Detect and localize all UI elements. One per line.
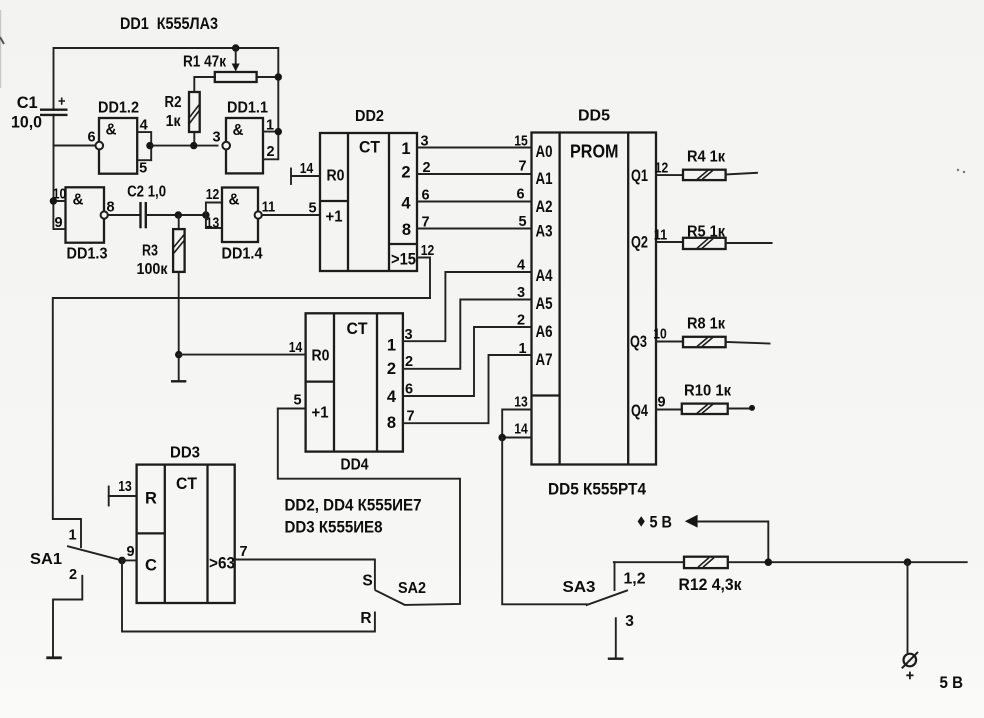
- svg-text:2: 2: [401, 164, 410, 182]
- svg-text:2: 2: [405, 354, 413, 370]
- svg-text:A6: A6: [536, 323, 553, 341]
- svg-text:4: 4: [517, 258, 525, 274]
- svg-text:5 В: 5 В: [940, 674, 964, 692]
- svg-text:Q4: Q4: [631, 402, 649, 420]
- svg-text:DD1 К555ЛА3: DD1 К555ЛА3: [120, 14, 218, 33]
- svg-text:+1: +1: [312, 405, 329, 422]
- svg-text:9: 9: [54, 215, 62, 231]
- svg-text:R0: R0: [327, 168, 345, 185]
- svg-text:DD2: DD2: [355, 108, 384, 125]
- svg-text:DD1.1: DD1.1: [227, 100, 268, 117]
- svg-text:&: &: [229, 192, 240, 209]
- svg-text:5: 5: [308, 201, 316, 217]
- svg-text:7: 7: [518, 159, 526, 175]
- svg-text:CT: CT: [359, 138, 381, 157]
- svg-text:DD3 К555ИЕ8: DD3 К555ИЕ8: [285, 519, 383, 537]
- svg-text:&: &: [73, 192, 84, 209]
- svg-text:SA1: SA1: [30, 551, 62, 568]
- svg-text:3: 3: [420, 134, 428, 150]
- svg-text:R12 4,3к: R12 4,3к: [679, 576, 743, 594]
- svg-text:4: 4: [387, 388, 397, 406]
- svg-text:8: 8: [106, 200, 114, 216]
- svg-text:6: 6: [405, 382, 413, 398]
- svg-text:R0: R0: [312, 348, 330, 365]
- svg-text:SA3: SA3: [563, 579, 596, 596]
- svg-text:7: 7: [239, 544, 247, 560]
- svg-text:1: 1: [518, 341, 526, 357]
- svg-text:R: R: [360, 610, 371, 627]
- svg-text:7: 7: [421, 215, 429, 231]
- svg-text:3: 3: [404, 327, 412, 343]
- svg-text:DD5 К555РТ4: DD5 К555РТ4: [548, 481, 647, 499]
- svg-text:2: 2: [387, 360, 396, 378]
- svg-text:1: 1: [68, 528, 76, 544]
- svg-text:A5: A5: [536, 295, 553, 313]
- svg-text:2: 2: [69, 567, 77, 583]
- svg-text:10: 10: [53, 187, 67, 203]
- svg-text:R: R: [145, 490, 157, 508]
- svg-text:DD2, DD4 К555ИЕ7: DD2, DD4 К555ИЕ7: [285, 497, 422, 515]
- svg-text:SA2: SA2: [398, 580, 426, 597]
- svg-text:100к: 100к: [137, 261, 168, 278]
- svg-text:PROM: PROM: [570, 142, 619, 162]
- svg-text:R5 1к: R5 1к: [687, 224, 725, 241]
- svg-text:1: 1: [401, 140, 410, 158]
- svg-text:R8 1к: R8 1к: [687, 316, 725, 333]
- svg-text:R2: R2: [165, 94, 182, 111]
- svg-text:14: 14: [300, 161, 314, 177]
- svg-text:DD1.2: DD1.2: [98, 100, 139, 117]
- svg-text:10,0: 10,0: [11, 113, 42, 132]
- svg-text:1,2: 1,2: [624, 571, 646, 588]
- svg-text:R10 1к: R10 1к: [684, 383, 731, 400]
- svg-text:12: 12: [206, 187, 220, 203]
- svg-text:DD4: DD4: [341, 457, 369, 474]
- svg-text:9: 9: [126, 544, 134, 560]
- svg-text:4: 4: [140, 118, 148, 134]
- svg-text:4: 4: [401, 195, 411, 213]
- svg-text:Q3: Q3: [630, 333, 647, 351]
- svg-text:R4 1к: R4 1к: [687, 149, 725, 166]
- svg-text:6: 6: [87, 130, 95, 146]
- svg-text:A1: A1: [536, 170, 553, 188]
- svg-text:DD5: DD5: [578, 108, 610, 125]
- svg-text:2: 2: [422, 160, 430, 176]
- svg-text:2: 2: [517, 313, 525, 329]
- svg-text:14: 14: [514, 422, 528, 438]
- svg-text:C1: C1: [17, 93, 38, 112]
- svg-text:A3: A3: [536, 223, 553, 241]
- svg-text:&: &: [233, 122, 244, 139]
- svg-text:7: 7: [406, 409, 414, 425]
- svg-text:A0: A0: [536, 143, 553, 161]
- svg-text:13: 13: [514, 395, 528, 411]
- svg-text:3: 3: [212, 130, 220, 146]
- svg-text:Q1: Q1: [631, 167, 648, 185]
- svg-text:5: 5: [293, 393, 301, 409]
- svg-text:5: 5: [518, 214, 526, 230]
- svg-text:8: 8: [387, 414, 396, 432]
- svg-text:3: 3: [625, 613, 634, 630]
- svg-text:>15: >15: [391, 251, 416, 269]
- svg-text:S: S: [362, 573, 372, 590]
- svg-text:DD1.3: DD1.3: [67, 246, 108, 263]
- svg-text:8: 8: [402, 221, 411, 239]
- svg-text:3: 3: [517, 285, 525, 301]
- svg-text:1: 1: [266, 118, 274, 134]
- svg-text:DD3: DD3: [170, 445, 200, 462]
- svg-text:DD1.4: DD1.4: [222, 246, 263, 263]
- svg-text:12: 12: [655, 161, 669, 177]
- svg-text:C: C: [145, 557, 157, 575]
- svg-text:1к: 1к: [166, 113, 181, 130]
- svg-text:A4: A4: [536, 267, 554, 285]
- svg-text:10: 10: [653, 327, 667, 343]
- svg-text:C2 1,0: C2 1,0: [127, 184, 166, 201]
- svg-text:5: 5: [139, 161, 147, 177]
- svg-text:11: 11: [262, 200, 276, 216]
- svg-text:1: 1: [387, 337, 396, 355]
- svg-text:12: 12: [421, 243, 435, 259]
- svg-text:R1 47к: R1 47к: [183, 54, 226, 71]
- svg-text:13: 13: [118, 479, 132, 495]
- svg-text:6: 6: [516, 187, 524, 203]
- svg-text:A2: A2: [536, 198, 553, 216]
- svg-text:13: 13: [206, 216, 220, 232]
- svg-text:>63: >63: [209, 555, 235, 573]
- svg-text:+1: +1: [326, 209, 343, 226]
- svg-text:A7: A7: [536, 351, 553, 369]
- svg-text:14: 14: [289, 340, 303, 356]
- svg-text:R3: R3: [142, 243, 158, 260]
- svg-text:5 В: 5 В: [650, 514, 673, 532]
- svg-text:CT: CT: [347, 319, 369, 338]
- svg-text:&: &: [106, 122, 117, 139]
- svg-text:CT: CT: [176, 474, 198, 493]
- svg-text:2: 2: [266, 144, 274, 160]
- svg-text:Q2: Q2: [631, 234, 648, 252]
- svg-text:6: 6: [421, 188, 429, 204]
- svg-text:9: 9: [657, 395, 665, 411]
- svg-text:15: 15: [514, 134, 528, 150]
